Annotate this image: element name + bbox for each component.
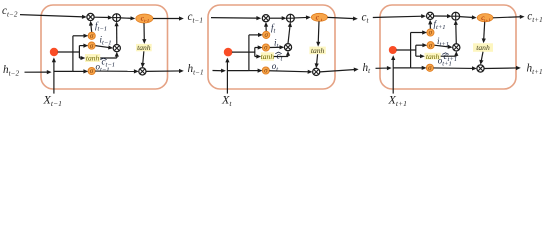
inner bus vertical cell 2 (254, 48, 256, 57)
wire forget gate to mult cell 1 (90, 24, 93, 32)
wire input gate to mult2 cell 2 (270, 46, 282, 48)
sigma input gate cell 1 (88, 42, 95, 49)
wire X input vertical cell 2 (226, 59, 228, 93)
wire c output of cell 3 (493, 17, 522, 18)
wire tanh down to output mult cell 2 (317, 54, 318, 65)
svg-text:tanh: tanh (311, 46, 325, 55)
wire h label to next cell 2 (376, 67, 389, 69)
wire state down to tanh cell 2 (317, 21, 320, 43)
multiply node input*candidate cell 2 (284, 44, 291, 51)
svg-text:σ: σ (429, 41, 433, 49)
wire bus to forget gate cell 3 (411, 32, 424, 34)
wire c input into cell 1 (20, 15, 84, 17)
wire c label to next cell 2 (373, 16, 423, 17)
svg-text:t+1: t+1 (484, 17, 491, 22)
wire junction to gate bus cell 3 (396, 49, 416, 51)
multiply node input*candidate cell 3 (453, 44, 460, 51)
cell state ellipse c cell 1 (136, 14, 153, 23)
tanh candidate box cell 1 (85, 54, 100, 62)
wire bus to input gate cell 2 (255, 47, 260, 49)
multiply node input*candidate cell 1 (113, 45, 120, 52)
svg-text:σ: σ (264, 67, 268, 75)
wire cell 3 plus to state ellipse (460, 16, 474, 19)
wire c output of cell 1 (153, 18, 181, 20)
svg-text:tanh: tanh (476, 43, 490, 52)
wire h output of cell 2 (320, 70, 356, 72)
wire tanh candidate to mult2 cell 2 (274, 56, 288, 58)
wire bus to tanh candidate cell 3 (416, 55, 422, 57)
wire c output of cell 2 (328, 17, 355, 18)
wire h line across cell 3 (393, 67, 410, 69)
svg-text:σ: σ (428, 64, 432, 72)
wire tanh down to output mult cell 1 (143, 51, 144, 64)
wire bus to input gate cell 3 (416, 44, 424, 46)
wire h output of cell 3 (484, 67, 518, 70)
wire cell 2 mult1 to plus (270, 17, 284, 19)
wire state down to tanh cell 3 (484, 22, 485, 40)
wire output gate to output mult cell 2 (269, 71, 309, 72)
wire state down to tanh cell 1 (143, 23, 145, 41)
wire bus to input gate cell 1 (79, 45, 85, 47)
input junction dot cell 1 (50, 48, 58, 56)
wire mult2 to plus cell 2 (288, 25, 290, 43)
wire junction to gate bus cell 2 (232, 51, 255, 53)
multiply node output cell 1 (139, 68, 146, 75)
wire bus to tanh candidate cell 2 (255, 56, 258, 58)
wire h input into cell 1 (25, 71, 49, 73)
wire tanh candidate to mult2 cell 3 (441, 55, 457, 57)
wire cell 1 mult1 to plus (94, 16, 110, 18)
wire bus to forget gate cell 2 (249, 34, 260, 36)
tanh candidate box cell 3 (425, 53, 441, 60)
wire tanh candidate to mult2 cell 1 (100, 57, 117, 59)
wire junction to gate bus cell 1 (58, 51, 80, 53)
wire input gate to mult2 cell 1 (95, 46, 110, 48)
wire h output of cell 1 (146, 70, 181, 72)
wire bus to forget gate cell 1 (73, 35, 85, 37)
svg-text:σ: σ (264, 31, 268, 39)
wire h line across cell 1 (54, 70, 73, 72)
tanh candidate box cell 2 (261, 52, 274, 60)
wire output gate to output mult cell 3 (434, 67, 474, 70)
cell state ellipse c cell 3 (477, 14, 493, 22)
wire cell 1 plus to state ellipse (121, 17, 133, 20)
inner bus vertical cell 3 (415, 45, 417, 56)
wire X input vertical cell 3 (392, 57, 394, 94)
svg-text:σ: σ (90, 67, 94, 75)
LSTM cell 1 border (41, 5, 168, 89)
wire tanh down to output mult cell 3 (481, 52, 483, 62)
wire cell 2 plus to state ellipse (294, 16, 307, 19)
tanh output box cell 2 (309, 47, 325, 55)
tanh output box cell 3 (473, 43, 493, 52)
wire forget gate to mult cell 3 (429, 23, 431, 29)
svg-text:σ: σ (90, 32, 94, 40)
input junction dot cell 2 (224, 48, 233, 57)
wire mult2 to plus cell 1 (116, 25, 118, 45)
wire c label to next cell 1 (211, 17, 258, 20)
svg-text:σ: σ (429, 29, 433, 37)
wire mult2 to plus cell 3 (455, 23, 458, 44)
sigma forget gate cell 2 (263, 31, 270, 38)
wire X input vertical cell 1 (53, 59, 55, 93)
wire bus to tanh candidate cell 1 (79, 57, 82, 59)
sigma forget gate cell 1 (88, 32, 95, 39)
gate bus vertical cell 3 (410, 33, 412, 68)
svg-text:σ: σ (90, 42, 94, 50)
wire h line across cell 2 (227, 70, 249, 72)
cell state ellipse c cell 2 (311, 13, 327, 21)
gate bus vertical cell 1 (72, 36, 74, 72)
LSTM cell 2 border (208, 5, 335, 89)
multiply node output cell 3 (477, 65, 484, 72)
svg-text:tanh: tanh (137, 43, 151, 52)
wire forget gate to mult cell 2 (265, 25, 267, 31)
sigma forget gate cell 3 (427, 29, 434, 36)
wire input gate to mult2 cell 3 (434, 45, 449, 47)
gate bus vertical cell 2 (248, 35, 250, 71)
wire h label to next cell 1 (213, 70, 223, 72)
svg-text:tanh: tanh (261, 52, 275, 61)
sigma input gate cell 3 (427, 42, 434, 49)
input junction dot cell 3 (389, 46, 397, 54)
inner bus vertical cell 1 (78, 46, 80, 58)
wire output gate to output mult cell 1 (95, 70, 135, 72)
wire cell 3 mult1 to plus (434, 15, 449, 17)
LSTM cell 3 border (380, 5, 516, 89)
multiply node output cell 2 (313, 68, 320, 75)
tanh output box cell 1 (136, 44, 152, 51)
sigma output gate cell 1 (88, 67, 95, 74)
sigma output gate cell 3 (426, 64, 433, 71)
sigma input gate cell 2 (262, 44, 269, 51)
svg-text:σ: σ (264, 44, 268, 52)
svg-text:t-1: t-1 (144, 18, 149, 23)
sigma output gate cell 2 (262, 67, 269, 74)
